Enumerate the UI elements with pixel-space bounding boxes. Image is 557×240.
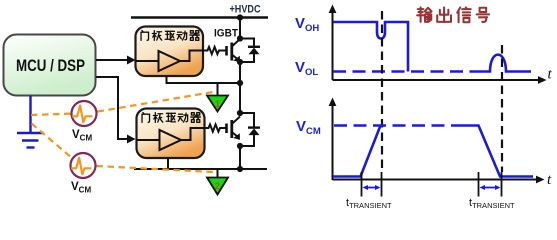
output waveform low with glitch bump	[472, 55, 531, 72]
svg-text:+HVDC: +HVDC	[230, 4, 261, 16]
double arrow transient 2	[480, 185, 501, 190]
diode D1 (freewheel)	[240, 39, 260, 63]
output waveform title 输出信号	[417, 7, 431, 21]
U2 output wire	[181, 128, 205, 140]
measurement ticks transient 1	[362, 172, 382, 197]
IGBT Q1	[227, 39, 241, 61]
wire MCU to bottom gate driver	[96, 77, 136, 144]
bottom plot y-axis	[332, 104, 334, 180]
dashed CM coupling: VCM1 to floating ground 1	[98, 92, 217, 112]
VCM waveform fall ramp and baseline	[463, 126, 533, 177]
U2 buffer triangle	[160, 130, 182, 150]
dashed CM coupling: VCM2 to floating ground 2	[97, 166, 214, 172]
bottom rail (power ground bus)	[134, 168, 267, 170]
diode D2 (freewheel)	[240, 113, 260, 146]
IGBT Q2	[227, 117, 241, 139]
wire HVDC to Q1 collector	[239, 18, 241, 39]
switching instant dashed line 2	[501, 45, 503, 172]
svg-text:1: 1	[215, 99, 221, 110]
U1 label 门极驱动器	[141, 30, 148, 40]
VCM source 1	[72, 101, 97, 143]
measurement ticks transient 2	[479, 172, 502, 197]
U1 input wire	[136, 60, 159, 62]
svg-text:IGBT: IGBT	[214, 28, 238, 40]
floating ground 1 (green)	[207, 96, 228, 112]
top plot y-axis	[332, 11, 334, 80]
resistor R1 (gate)	[203, 47, 227, 54]
wire U1 reference to switch node	[167, 76, 241, 83]
svg-text:2: 2	[215, 181, 220, 192]
VOL dashed reference line	[333, 70, 472, 73]
dashed CM coupling: ground to VCM1	[31, 114, 71, 115]
gate driver U1 box	[136, 27, 204, 77]
+HVDC rail	[131, 16, 268, 19]
U2 label 门极驱动器	[142, 112, 149, 122]
svg-text:MCU / DSP: MCU / DSP	[16, 57, 85, 75]
dashed CM coupling: ground to VCM2	[32, 124, 73, 159]
MCU/DSP block	[4, 35, 96, 96]
junction dots	[237, 14, 243, 172]
wire Q1 emitter to Q2 collector (switch node)	[239, 62, 241, 113]
VCM waveform baseline and rise ramp	[333, 126, 381, 177]
wire stem to floating ground 1	[217, 83, 219, 96]
output waveform high with notch and fall	[333, 22, 408, 72]
wire stem to floating ground 2	[217, 169, 219, 178]
wire Q2 emitter to bottom rail	[239, 146, 241, 169]
wire U2 reference to bottom rail	[167, 158, 169, 169]
U1 output wire	[180, 51, 204, 62]
ground (earth) below MCU	[17, 96, 44, 148]
wire MCU to top gate driver	[96, 56, 136, 65]
double arrow transient 1	[363, 185, 381, 190]
U1 buffer triangle	[159, 51, 181, 71]
gate driver U2 box	[137, 109, 205, 159]
top plot x-axis	[333, 79, 540, 81]
bottom plot x-axis	[333, 179, 538, 181]
U2 input wire	[137, 139, 160, 141]
VCM source 2	[71, 153, 96, 195]
floating ground 2 (green)	[207, 178, 228, 195]
resistor R2 (gate)	[205, 124, 227, 131]
switching instant dashed line 1	[381, 11, 383, 172]
VCM dashed level line	[334, 124, 463, 127]
